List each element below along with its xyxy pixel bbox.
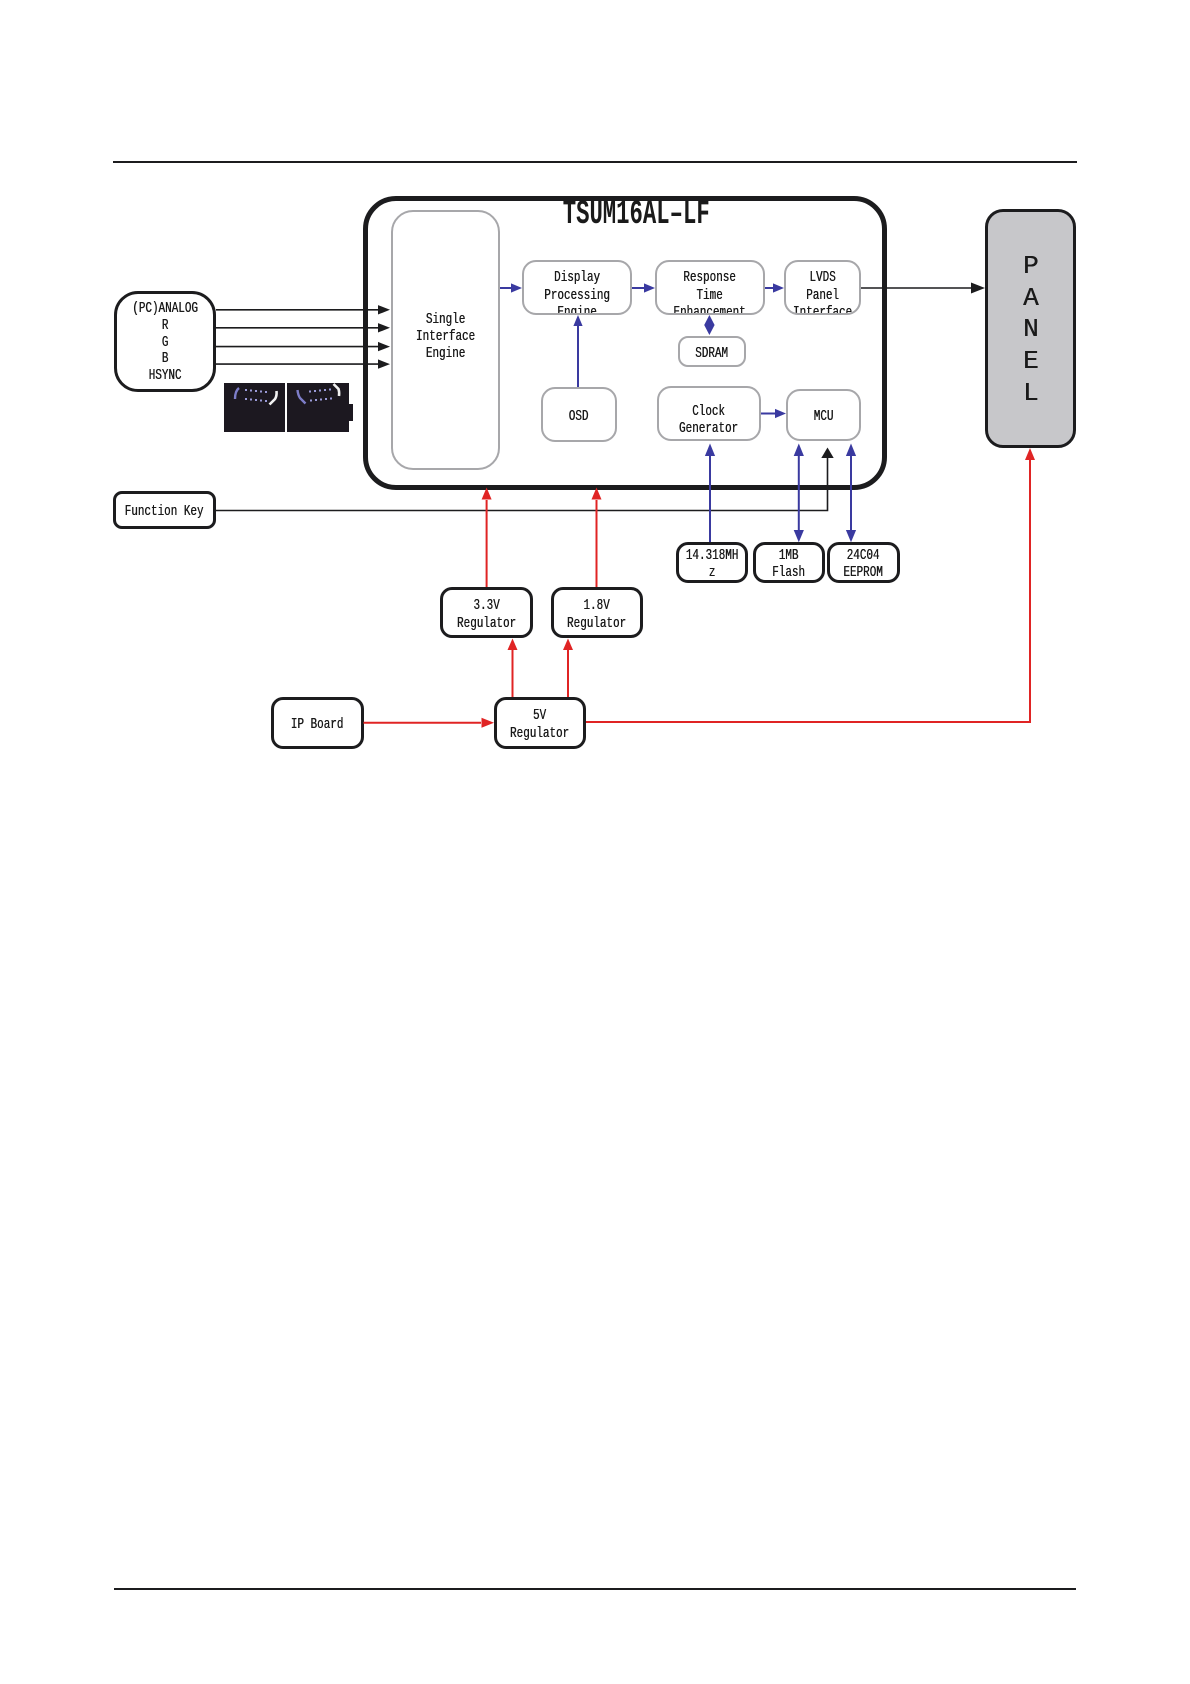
wire RTE to SDRAM (bidirectional diamond) <box>704 315 714 335</box>
MCU block <box>786 389 861 441</box>
wire 1.8V Regulator to TSUM <box>592 488 602 588</box>
3.3V Regulator block <box>440 587 533 638</box>
SDRAM block <box>678 336 746 367</box>
bottom rule <box>114 1588 1076 1591</box>
Function Key block <box>113 491 216 529</box>
Display Processing Engine block <box>522 260 632 315</box>
TSUM16AL-LF controller block U1 <box>363 196 887 490</box>
wire B/HSYNC signal to SIE <box>216 359 390 368</box>
wire 5V Regulator to PANEL <box>586 448 1035 722</box>
wire R signal to SIE <box>216 323 390 332</box>
wire MCU to 24C04 EEPROM (bidirectional) <box>846 444 856 543</box>
IP Board block <box>271 697 364 749</box>
wire OSD to DPE <box>573 315 582 387</box>
top rule <box>113 161 1077 164</box>
wire IP Board to 5V Regulator <box>364 718 495 728</box>
VGA connector picture (right half) <box>287 383 349 432</box>
14.318MHz crystal block Y1 <box>676 542 748 583</box>
(PC)ANALOG RGB HSYNC input block <box>114 291 216 392</box>
wire RTE to LVDS Panel Interface <box>765 283 784 292</box>
wire 3.3V Regulator to TSUM <box>482 488 492 588</box>
Clock Generator block <box>657 386 761 441</box>
wire LVDS Panel Interface to PANEL <box>861 283 985 294</box>
PANEL block <box>985 209 1076 448</box>
24C04 EEPROM block <box>827 542 900 583</box>
wire G signal to SIE <box>216 342 390 351</box>
VGA connector picture notch <box>349 404 353 421</box>
1.8V Regulator block <box>551 587 643 638</box>
wire 5V Regulator to 3.3V Regulator <box>508 639 518 698</box>
Single Interface Engine block <box>391 210 500 470</box>
VGA connector picture (left half) <box>224 383 285 432</box>
wire ANALOG signal to SIE <box>216 305 390 314</box>
LVDS Panel Interface block <box>784 260 861 315</box>
wire SIE to Display Processing Engine <box>500 283 522 292</box>
wire 5V Regulator to 1.8V Regulator <box>563 639 573 698</box>
wire Clock Generator to MCU <box>761 409 786 418</box>
5V Regulator block <box>494 697 586 749</box>
label TSUM16AL-LF <box>486 196 786 230</box>
wire MCU to 1MB Flash (bidirectional) <box>794 444 804 543</box>
wire DPE to Response Time Enhancement <box>632 283 655 292</box>
OSD block <box>541 387 617 442</box>
wire Function Key to MCU <box>216 448 834 511</box>
1MB Flash memory block <box>753 542 825 583</box>
Response Time Enhancement block <box>655 260 765 315</box>
wire 14.318MHz crystal to Clock Generator <box>705 444 715 543</box>
